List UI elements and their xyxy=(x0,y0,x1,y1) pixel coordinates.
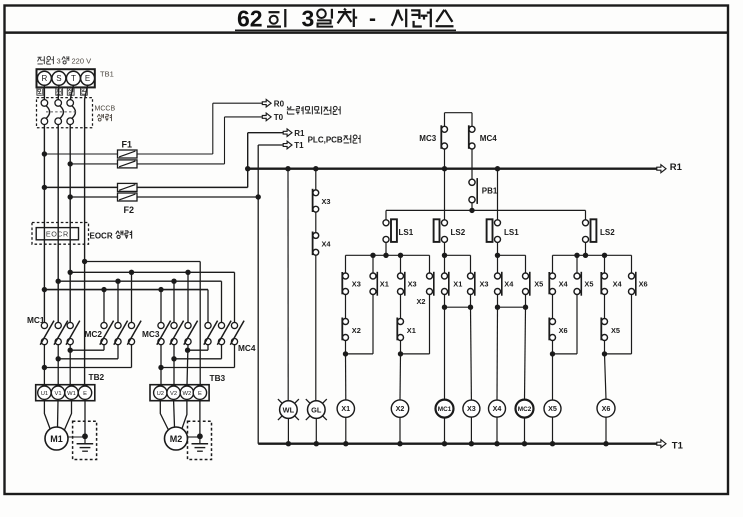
join group4 xyxy=(498,306,526,308)
svg-text:3: 3 xyxy=(57,56,61,65)
svg-text:X6: X6 xyxy=(559,326,568,335)
branch X2-B vertical xyxy=(429,255,431,354)
svg-text:U1: U1 xyxy=(41,391,48,397)
svg-text:T1: T1 xyxy=(672,441,684,452)
wire S distribution xyxy=(56,279,61,284)
MCCB trip bar dashed xyxy=(46,111,77,113)
TB1 terminal S xyxy=(52,71,66,85)
svg-text:T: T xyxy=(71,74,76,83)
arrow T1 xyxy=(283,141,292,149)
svg-text:X2: X2 xyxy=(352,326,361,335)
svg-text:TB1: TB1 xyxy=(100,70,114,79)
svg-text:R: R xyxy=(42,74,48,83)
join group3 xyxy=(445,306,471,308)
wire to coil MC2 xyxy=(525,307,526,399)
wire MC1p1 to U1 xyxy=(43,345,45,386)
svg-text:MC2: MC2 xyxy=(85,329,103,339)
coil X6 xyxy=(597,399,615,417)
branch X4 vertical xyxy=(497,255,499,307)
title glyph CHA xyxy=(344,9,346,11)
limit switch LS2 (first) xyxy=(444,169,446,220)
lamp WL xyxy=(278,399,299,420)
arrow R1 right xyxy=(657,165,666,173)
TB1 terminal T xyxy=(66,71,80,85)
arrow T1 right xyxy=(657,440,666,448)
contactor MC4 pole 3 xyxy=(233,327,236,340)
contact X6 (NC) g6 xyxy=(630,278,633,290)
wire U2 to M2 xyxy=(160,401,168,431)
limit switch LS1 (first) xyxy=(385,225,388,238)
wire phase T vertical xyxy=(69,124,71,322)
wire color tags (black red blue green) xyxy=(37,88,44,95)
svg-text:W2: W2 xyxy=(183,391,192,397)
svg-text:S: S xyxy=(56,74,61,83)
contact X4 (NC) g4 xyxy=(496,278,499,290)
join group2 xyxy=(401,353,430,355)
terminal block TB2 xyxy=(36,385,95,401)
svg-text:MC4: MC4 xyxy=(238,343,256,353)
wire to coil X2 xyxy=(399,354,402,400)
svg-text:X5: X5 xyxy=(611,326,620,335)
motor M1 xyxy=(45,427,68,450)
branch MC2 vertical xyxy=(525,255,527,307)
title glyph SI xyxy=(392,10,398,26)
wire MC2p1 tie to W1 xyxy=(103,345,105,350)
lamp GL xyxy=(306,399,327,420)
svg-text:T1: T1 xyxy=(294,141,304,150)
wire phase R vertical xyxy=(43,124,45,322)
EOCR body xyxy=(36,228,78,240)
arrow R1 xyxy=(283,129,292,137)
wire R tap to fuse F2a xyxy=(42,185,47,190)
svg-text:V1: V1 xyxy=(54,391,61,397)
coil X4 xyxy=(489,400,506,417)
svg-text:TB2: TB2 xyxy=(89,372,105,382)
svg-text:X3: X3 xyxy=(408,279,417,288)
coil X2 xyxy=(391,400,408,417)
branch X6-A vertical xyxy=(604,255,606,354)
svg-text:WL: WL xyxy=(283,405,295,414)
branch GL vertical xyxy=(313,166,318,171)
contact X4 (NO) GL branch xyxy=(314,238,317,251)
TB1 terminal E xyxy=(81,71,95,85)
contact X1 (NO) g2 xyxy=(399,324,402,336)
svg-text:R1: R1 xyxy=(294,129,305,138)
wire TB1-E down xyxy=(85,85,88,99)
svg-text:X4: X4 xyxy=(613,279,623,288)
contact X2 (NC) g2 xyxy=(428,278,431,290)
wire TB1-S to MCCB xyxy=(57,85,60,99)
contact MC4 (NO) xyxy=(471,131,474,144)
svg-text:LS1: LS1 xyxy=(504,228,519,237)
contactor MC4 pole 2 xyxy=(220,327,223,340)
fuse F2b xyxy=(118,193,138,201)
node MC3 bus junction xyxy=(442,166,447,171)
contactor MC1 pole 2 xyxy=(57,327,60,340)
junction dots bottom bus xyxy=(286,441,291,446)
limit switch LS1 (second) xyxy=(495,166,500,171)
contactor MC2 pole 3 xyxy=(130,327,133,340)
contactor MC4 pole 1 xyxy=(207,327,210,340)
wire T tap to fuse F2b xyxy=(68,194,73,199)
arrow T0 xyxy=(262,113,271,121)
contactor MC2 pole 2 xyxy=(117,327,120,340)
branch X5-A vertical xyxy=(552,255,554,354)
svg-text:R0: R0 xyxy=(274,99,285,108)
pushbutton PB1 xyxy=(471,184,474,197)
svg-text:GL: GL xyxy=(311,405,322,414)
wire to coil X3 xyxy=(470,307,473,400)
svg-text:X5: X5 xyxy=(534,279,543,288)
wire MC2p2 tie to V1 xyxy=(117,345,119,359)
contactor MC1 pole 3 xyxy=(69,327,72,340)
wire W2 to M2 xyxy=(182,401,187,429)
wire T tap to fuse F1b xyxy=(68,161,73,166)
limit switch LS2 (second) xyxy=(584,225,587,238)
title glyph KWON xyxy=(411,10,419,19)
fuse F1a xyxy=(118,150,138,158)
TB1 terminal R xyxy=(37,71,51,85)
node M1 ground junction xyxy=(82,433,88,439)
branch X3coil vertical xyxy=(470,255,472,307)
branch X1-B vertical xyxy=(372,255,374,354)
coil MC2 xyxy=(516,400,534,418)
contactor MC1 pole 1 xyxy=(43,327,46,340)
svg-text:X3: X3 xyxy=(322,197,331,206)
branch X6-B vertical xyxy=(631,255,633,354)
svg-text:V2: V2 xyxy=(170,391,177,397)
wire MC3p1 to U2 xyxy=(160,345,162,386)
wire phase S vertical xyxy=(57,124,59,322)
label power source 3-phase 220V xyxy=(38,56,42,58)
wire to coil X4 xyxy=(496,307,499,400)
title glyph HOE xyxy=(269,11,280,13)
MCCB pole 3 xyxy=(67,100,74,107)
wire MC4p3 tie to U2 xyxy=(234,345,236,368)
svg-text:MC2: MC2 xyxy=(518,406,532,413)
svg-text:X3: X3 xyxy=(467,404,476,413)
svg-text:PB1: PB1 xyxy=(482,187,498,196)
wire to LS1 first xyxy=(385,210,387,219)
wire MC4 to PB1 (crosses bus) xyxy=(471,149,473,179)
fuse F2a xyxy=(118,183,138,191)
svg-text:M2: M2 xyxy=(170,434,183,444)
sub-bus group X5/X6 xyxy=(553,254,632,256)
bus R1 horizontal xyxy=(248,168,657,170)
title separator line xyxy=(5,31,729,34)
svg-text:MCCB: MCCB xyxy=(95,106,116,113)
wire MC3 to bus xyxy=(444,149,446,169)
contact X3 (bar right) g3 xyxy=(469,278,472,290)
fuse F1b xyxy=(118,160,138,168)
wire earth E vertical xyxy=(84,99,86,385)
wire MC2p3 tie to U1 xyxy=(131,345,133,368)
wire F2b to T1 riser xyxy=(137,196,258,198)
svg-text:R1: R1 xyxy=(670,162,683,173)
bus T1 bottom horizontal xyxy=(258,443,657,445)
svg-text:F2: F2 xyxy=(124,205,135,215)
bus PB1 output horizontal xyxy=(386,209,586,211)
svg-text:-: - xyxy=(369,8,376,31)
svg-text:MC1: MC1 xyxy=(27,315,45,325)
coil X5 xyxy=(544,400,561,417)
node PB1 junction xyxy=(469,208,474,213)
contact X5 (NC) g5 xyxy=(576,278,579,290)
wire MC4p2 tie to V2 xyxy=(221,345,223,359)
wire F2a to R1 riser xyxy=(137,186,248,188)
svg-text:X1: X1 xyxy=(407,326,416,335)
ground symbol M2 xyxy=(199,436,201,443)
wire E to M2 ground xyxy=(199,401,201,437)
svg-text:LS2: LS2 xyxy=(451,228,466,237)
svg-text:X6: X6 xyxy=(639,279,648,288)
wire TB1-T to MCCB xyxy=(70,85,73,99)
svg-text:X6: X6 xyxy=(602,404,611,413)
svg-text:X4: X4 xyxy=(504,279,514,288)
wire F1b to T0 riser xyxy=(137,163,225,165)
svg-text:62: 62 xyxy=(237,6,263,32)
svg-text:EOCR: EOCR xyxy=(46,230,69,239)
wire MC3p2 to V2 xyxy=(173,345,175,386)
svg-text:MC3: MC3 xyxy=(419,134,436,143)
contact X3 (NO) GL branch xyxy=(314,195,317,207)
wire to LS2 second xyxy=(585,210,587,219)
join group6 xyxy=(605,353,632,355)
svg-text:X5: X5 xyxy=(548,404,557,413)
svg-text:T0: T0 xyxy=(274,113,284,122)
contactor MC3 pole 3 xyxy=(187,327,190,340)
contact X3 (NC) g2 xyxy=(399,278,402,290)
svg-text:E: E xyxy=(85,74,90,83)
wire PB1 to sub-bus xyxy=(471,203,473,211)
contact MC3 (NO) xyxy=(443,131,446,144)
sub-bus group X1/X2 xyxy=(346,254,430,256)
svg-text:X4: X4 xyxy=(322,240,332,249)
svg-text:MC3: MC3 xyxy=(142,329,160,339)
svg-text:U2: U2 xyxy=(157,391,164,397)
svg-text:X4: X4 xyxy=(559,279,569,288)
branch X5-B vertical xyxy=(576,255,578,354)
branch X2-A vertical xyxy=(400,255,402,354)
wire MC1p3 to W1 xyxy=(69,345,71,386)
svg-text:X3: X3 xyxy=(352,279,361,288)
motor M2 xyxy=(165,427,188,450)
wire R distribution xyxy=(42,287,47,292)
coil MC1 xyxy=(436,400,454,418)
join group1 xyxy=(346,353,374,355)
wire V1 to M1 xyxy=(57,401,60,428)
wire E to M1 ground xyxy=(84,401,86,437)
contact X4 (NO) g6 xyxy=(603,278,606,290)
svg-text:PLC,PCB: PLC,PCB xyxy=(308,135,343,144)
wire T distribution xyxy=(68,270,73,275)
contact X5 (NO) g6 xyxy=(603,324,606,336)
relay EOCR (omitted) dashed box xyxy=(32,223,89,245)
branch X1-A vertical xyxy=(345,255,347,354)
terminal block TB3 xyxy=(150,385,209,401)
svg-text:X2: X2 xyxy=(417,297,426,306)
svg-text:LS1: LS1 xyxy=(399,228,414,237)
svg-text:X2: X2 xyxy=(396,404,405,413)
svg-text:X1: X1 xyxy=(380,279,389,288)
svg-text:MC4: MC4 xyxy=(480,134,497,143)
contact X3 (NO) g1 xyxy=(344,278,347,290)
svg-text:LS2: LS2 xyxy=(600,228,615,237)
ground symbol M1 xyxy=(84,436,86,443)
node M2 ground junction xyxy=(197,433,203,439)
arrow R0 xyxy=(262,99,271,107)
svg-text:MC1: MC1 xyxy=(438,406,452,413)
svg-text:M1: M1 xyxy=(50,434,63,444)
contact X2 (NO) g1 xyxy=(344,324,347,336)
svg-text:X1: X1 xyxy=(453,279,462,288)
label logic-circuit power (hangul) xyxy=(287,106,289,108)
wire coil X2 to bottom bus xyxy=(399,417,401,443)
breaker MCCB (omitted) dashed box xyxy=(37,98,93,128)
svg-text:3: 3 xyxy=(302,6,315,32)
wire U1 to M1 xyxy=(44,401,50,431)
node R1-bus left junction xyxy=(245,166,250,171)
svg-text:X5: X5 xyxy=(584,279,593,288)
wire TB1-R to MCCB xyxy=(43,85,45,99)
title glyph SEU xyxy=(436,10,444,22)
ground dashed box M1 xyxy=(73,421,97,459)
contactor MC2 pole 1 xyxy=(103,327,106,340)
wire to coil X5 xyxy=(552,354,554,400)
join group5 xyxy=(553,353,578,355)
contactor MC3 pole 1 xyxy=(160,327,163,340)
terminal block TB1 xyxy=(37,69,95,87)
wire T1 riser to bottom bus xyxy=(257,197,259,444)
svg-text:EOCR: EOCR xyxy=(90,231,113,240)
MCCB pole 2 xyxy=(55,100,62,107)
wire R tap to fuse F1a xyxy=(42,151,47,156)
wire V2 to M2 xyxy=(173,401,176,428)
svg-text:E: E xyxy=(83,391,87,397)
branch MC1 vertical xyxy=(444,255,446,307)
contact X1 (NC) g3 xyxy=(443,278,446,290)
wire MC3p3 to W2 xyxy=(187,345,188,386)
svg-text:E: E xyxy=(198,391,202,397)
ground dashed box M2 xyxy=(188,421,212,459)
wire to coil X6 xyxy=(605,354,607,399)
wire MC3-MC4 top bar xyxy=(445,112,473,114)
title underline xyxy=(235,29,456,31)
sub-bus group MC1/X3 xyxy=(445,254,471,256)
wire to coil MC1 xyxy=(444,307,446,399)
svg-text:W1: W1 xyxy=(67,391,76,397)
wire W1 to M1 xyxy=(65,401,72,430)
wire to coil X1 xyxy=(345,354,347,400)
sub-bus group X4/MC2 xyxy=(498,254,526,256)
title glyph IL xyxy=(317,9,326,18)
wire MC4p1 tie to W2 xyxy=(207,345,209,350)
svg-text:X1: X1 xyxy=(341,404,350,413)
svg-text:X3: X3 xyxy=(480,279,489,288)
MCCB pole 1 xyxy=(41,100,48,107)
coil X3 xyxy=(463,400,480,417)
contact X6 (NO) g5 xyxy=(551,324,554,336)
contact X5 (NC) g4 xyxy=(524,278,527,290)
contact X4 (NO) g5 xyxy=(551,278,554,290)
contactor MC3 pole 2 xyxy=(173,327,176,340)
wire F1a to R0 riser xyxy=(137,153,213,155)
svg-text:F1: F1 xyxy=(122,139,133,149)
wire coil X1 to bottom bus xyxy=(345,417,347,443)
contact X1 (NC) g1 xyxy=(372,278,375,290)
wire E distribution xyxy=(82,259,87,264)
svg-text:TB3: TB3 xyxy=(210,373,226,383)
coil X1 xyxy=(337,400,354,417)
svg-text:X4: X4 xyxy=(493,404,502,413)
svg-text:220 V: 220 V xyxy=(72,56,92,65)
wire MC1p2 to V1 xyxy=(57,345,59,386)
branch WL vertical xyxy=(285,166,290,171)
